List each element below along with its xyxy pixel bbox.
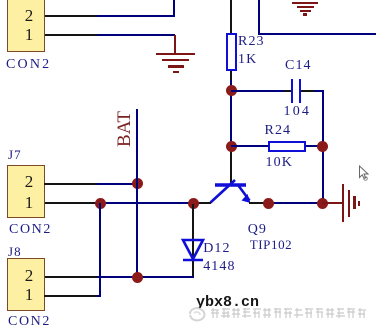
label R23: [238, 37, 265, 47]
ground GND1 stem: [174, 35, 176, 53]
pin number 2 (top CON2): [25, 10, 34, 21]
wire R24 right: [306, 145, 322, 147]
resistor R23: [226, 33, 237, 71]
pin number 2 (J8): [25, 270, 34, 281]
label CON2 (J8): [8, 317, 51, 327]
connector CON2 (top) body: [7, 0, 45, 52]
node BAT/J7.2 junction: [132, 178, 143, 189]
wire top-right corner vertical: [258, 0, 260, 35]
wire J8.1 corner: [97, 295, 101, 297]
pin stub J8.1: [44, 295, 97, 297]
node J8.1 junction: [95, 198, 106, 209]
wire bottom row y277: [97, 276, 194, 278]
node right-rail bottom junction: [317, 198, 328, 209]
wire into R23 from top: [230, 0, 232, 33]
wire CON2.1 to ground: [97, 34, 175, 36]
node BAT bottom junction: [132, 272, 143, 283]
node emitter junction: [263, 198, 274, 209]
label D12: [203, 244, 230, 254]
connector J8 body: [7, 258, 45, 311]
node C14-left junction: [226, 85, 237, 96]
wire base row y202: [97, 202, 193, 204]
wire D12 vertical: [192, 204, 194, 278]
transistor Q9: [190, 160, 260, 210]
pin stub J7.2: [44, 183, 97, 185]
pin stub CON2.1: [45, 34, 97, 36]
label J8: [8, 247, 22, 257]
pin number 1 (J8): [25, 289, 34, 300]
label C14: [285, 61, 312, 71]
label CON2 (J7): [9, 225, 52, 235]
pin number 1 (top CON2): [25, 29, 34, 40]
node R24-left junction: [226, 141, 237, 152]
wire top-right corner horizontal: [258, 33, 376, 35]
wire vertical up at x174: [173, 0, 175, 17]
node R24-right junction: [317, 141, 328, 152]
pin number 2 (J7): [25, 176, 34, 187]
wire BAT vertical: [136, 109, 138, 278]
watermark chinese text (drawn as gray glyph marks): [210, 307, 368, 320]
ground GND1 bars: [156, 53, 195, 56]
value 4148: [203, 262, 235, 272]
wire CON2.2 to top: [97, 15, 175, 17]
pin stub C14 right: [301, 90, 314, 92]
pin stub R23 bottom: [230, 71, 232, 80]
watermark swirl logo: [186, 305, 212, 323]
wire J7.2 to BAT: [97, 183, 138, 185]
label TIP102: [250, 240, 293, 250]
pin stub Q9 emitter (right): [249, 202, 269, 204]
wire C14 right: [314, 90, 324, 92]
wire R24 left: [231, 145, 268, 147]
diode D12: [178, 234, 208, 266]
wire R23 to base column: [230, 80, 232, 151]
value 104: [284, 107, 312, 117]
label R24: [265, 126, 292, 136]
watermark ybx8.cn: [196, 298, 259, 308]
wire J8.1 vertical up: [99, 203, 101, 297]
label J7: [8, 150, 22, 160]
resistor R24: [268, 141, 306, 152]
node D12 junction: [188, 198, 199, 209]
wire to ground GND3: [322, 202, 342, 204]
wire right vertical x322: [322, 90, 324, 205]
pin stub C14 left: [284, 90, 292, 92]
pin stub CON2.2: [45, 15, 97, 17]
net label BAT: [119, 110, 149, 152]
label CON2 (top): [6, 60, 51, 70]
pin stub J7.1: [44, 202, 97, 204]
wire emitter to right: [269, 202, 322, 204]
connector J7 body: [7, 165, 45, 218]
wire C14 left: [231, 90, 284, 92]
pin stub Q9 base: [230, 151, 232, 184]
ground GND2 (top right) bars: [292, 2, 318, 4]
label Q9: [248, 225, 267, 235]
value 10K: [266, 158, 293, 168]
pin stub J8.2: [44, 276, 97, 278]
pin number 1 (J7): [25, 197, 34, 208]
ground GND3 (rotated) bars: [342, 184, 345, 222]
capacitor C14 plates: [291, 79, 293, 103]
mouse cursor: [355, 162, 371, 184]
pin stub Q9 collector (left): [193, 202, 211, 204]
value 1K: [238, 55, 257, 65]
